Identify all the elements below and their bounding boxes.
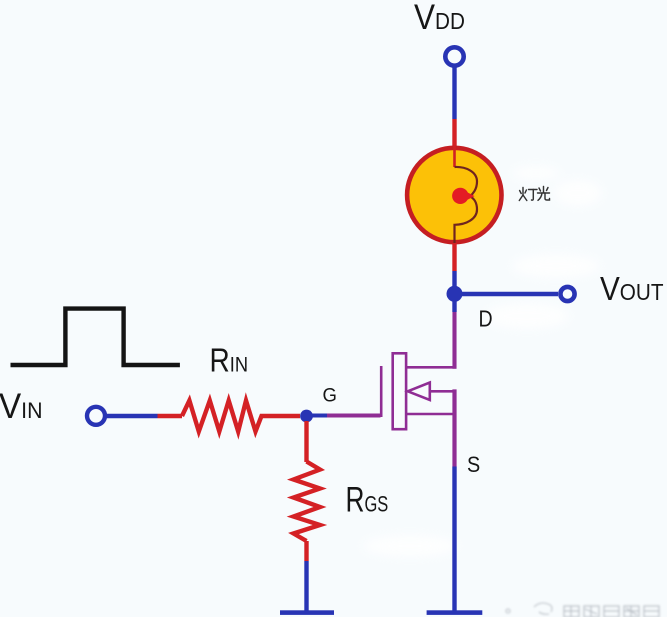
svg-text:G: G (323, 385, 337, 407)
svg-text:D: D (479, 306, 493, 332)
svg-text:S: S (467, 453, 480, 477)
